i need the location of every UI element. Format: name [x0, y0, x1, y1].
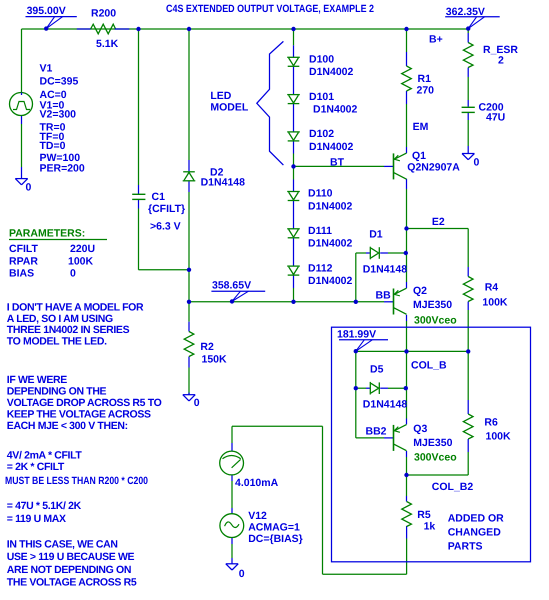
wire	[138, 29, 140, 194]
node E2	[432, 216, 445, 228]
label D2	[201, 167, 246, 189]
wire	[406, 179, 408, 229]
wire	[406, 91, 408, 153]
label D5	[363, 363, 408, 410]
label D100	[309, 54, 354, 79]
svg-text:COL_B2: COL_B2	[432, 481, 474, 493]
transistor Q1	[394, 153, 407, 179]
svg-text:362.35V: 362.35V	[446, 6, 485, 18]
value 2	[498, 55, 504, 67]
label 0	[26, 182, 32, 194]
node dot	[291, 300, 295, 304]
svg-text:D112: D112	[308, 262, 333, 274]
wire	[380, 252, 406, 254]
wire	[406, 526, 408, 539]
note math 2	[7, 500, 82, 525]
svg-text:ACMAG=1: ACMAG=1	[248, 522, 300, 534]
ground	[462, 154, 474, 160]
svg-text:47U: 47U	[486, 112, 505, 124]
svg-text:I DON'T HAVE A MODEL FOR: I DON'T HAVE A MODEL FOR	[7, 301, 144, 313]
V1 params	[40, 75, 85, 174]
svg-text:R5: R5	[417, 509, 431, 521]
svg-text:VOLTAGE DROP ACROSS R5 TO: VOLTAGE DROP ACROSS R5 TO	[7, 397, 162, 409]
label V12	[248, 510, 303, 545]
node EM	[413, 121, 429, 133]
label D1	[363, 228, 408, 275]
wire	[467, 351, 469, 414]
wire	[467, 302, 469, 352]
svg-text:TO MODEL THE LED.: TO MODEL THE LED.	[7, 336, 107, 348]
svg-text:5.1K: 5.1K	[96, 38, 119, 50]
svg-text:358.65V: 358.65V	[212, 280, 251, 292]
resistor R200	[77, 24, 130, 34]
node dot	[354, 300, 358, 304]
wire	[232, 425, 323, 427]
svg-text:D1N4148: D1N4148	[201, 176, 246, 188]
diode D101	[287, 95, 300, 104]
node dot	[404, 473, 408, 477]
svg-text:DEPENDING ON THE: DEPENDING ON THE	[7, 386, 107, 398]
svg-text:D1N4002: D1N4002	[309, 141, 354, 153]
box: added or changed parts	[332, 327, 531, 562]
node BB	[376, 289, 392, 301]
svg-text:C4S EXTENDED OUTPUT VOLTAGE, E: C4S EXTENDED OUTPUT VOLTAGE, EXAMPLE 2	[166, 3, 374, 15]
svg-text:IF WE WERE: IF WE WERE	[7, 374, 67, 386]
voltage source V1	[10, 93, 33, 116]
parameters heading	[9, 228, 107, 240]
wire	[467, 29, 469, 43]
diode D112	[287, 266, 300, 275]
voltage label 358.65V	[211, 280, 265, 304]
svg-text:ADDED OR: ADDED OR	[448, 513, 504, 525]
svg-text:R2: R2	[200, 341, 214, 353]
transistor Q2	[394, 288, 407, 314]
svg-text:V12: V12	[248, 510, 267, 522]
wire	[356, 252, 371, 254]
svg-text:Q2N2907A: Q2N2907A	[407, 162, 460, 174]
wire	[293, 29, 295, 45]
svg-text:C1: C1	[152, 191, 166, 203]
wire	[293, 104, 295, 132]
wire	[231, 537, 233, 563]
svg-text:0: 0	[26, 182, 32, 194]
wire	[21, 116, 23, 179]
note math 1	[5, 449, 148, 487]
node dot	[187, 300, 191, 304]
svg-text:CHANGED: CHANGED	[448, 527, 502, 539]
note paragraph 3	[7, 538, 137, 588]
wire	[188, 357, 190, 395]
transistor Q3	[394, 425, 407, 451]
svg-text:R6: R6	[484, 416, 498, 428]
svg-text:COL_B: COL_B	[411, 360, 447, 372]
wire	[406, 315, 408, 388]
svg-text:Q2: Q2	[413, 285, 427, 297]
svg-text:0: 0	[239, 568, 245, 580]
svg-text:D1: D1	[369, 228, 383, 240]
wire	[293, 238, 295, 266]
label 0	[239, 568, 245, 580]
wire	[293, 45, 295, 57]
wire	[22, 28, 469, 30]
svg-text:270: 270	[417, 85, 435, 97]
svg-text:D5: D5	[370, 363, 384, 375]
svg-text:MUST BE LESS THAN R200 * C200: MUST BE LESS THAN R200 * C200	[5, 475, 148, 487]
title	[166, 3, 374, 15]
svg-text:150K: 150K	[202, 354, 228, 366]
svg-text:D101: D101	[309, 91, 334, 103]
wire	[355, 253, 357, 302]
resistor R6	[463, 414, 473, 439]
resistor R4	[463, 277, 473, 302]
node COL_B2 wire	[407, 474, 469, 476]
svg-text:D102: D102	[309, 128, 334, 140]
svg-text:BB2: BB2	[366, 426, 387, 438]
diode D102	[287, 132, 300, 141]
svg-text:= 2K * CFILT: = 2K * CFILT	[7, 461, 65, 473]
node dot	[466, 349, 470, 353]
param CFILT	[9, 243, 95, 255]
node dot	[136, 27, 140, 31]
wire	[467, 439, 469, 475]
wire	[406, 539, 408, 575]
svg-text:MJE350: MJE350	[413, 299, 452, 311]
wire	[231, 426, 233, 451]
label 4.010mA	[235, 477, 279, 489]
svg-text:0: 0	[474, 157, 480, 169]
diode D100	[287, 57, 300, 66]
node dot	[187, 27, 191, 31]
value 47U	[486, 112, 505, 124]
node dot	[404, 27, 408, 31]
value 5.1K	[96, 38, 119, 50]
value Q2N2907A	[407, 162, 460, 174]
svg-text:PARTS: PARTS	[448, 541, 483, 553]
svg-text:D1N4148: D1N4148	[363, 399, 408, 411]
label C200	[479, 102, 504, 114]
voltage label 181.99V	[337, 328, 388, 353]
svg-text:B+: B+	[429, 34, 443, 46]
label D101	[309, 91, 358, 116]
svg-text:D111: D111	[308, 225, 332, 237]
node BT	[330, 157, 345, 169]
node BB wire	[189, 301, 394, 303]
label R2	[200, 341, 227, 366]
diode D2	[183, 172, 196, 181]
svg-text:0: 0	[70, 267, 76, 279]
svg-text:TD=0: TD=0	[40, 140, 66, 152]
label R1	[418, 73, 432, 85]
diode D110	[287, 192, 300, 201]
svg-text:V2=300: V2=300	[40, 109, 77, 121]
svg-text:395.00V: 395.00V	[27, 5, 66, 17]
node dot	[187, 268, 191, 272]
node dot	[354, 386, 358, 390]
label D111	[308, 225, 353, 250]
label Q1	[412, 150, 426, 162]
svg-text:E2: E2	[432, 216, 445, 228]
svg-text:DC=395: DC=395	[40, 75, 79, 87]
label 0	[474, 157, 480, 169]
label Q3	[413, 423, 456, 464]
label R4	[482, 281, 508, 308]
node E2 wire	[407, 228, 469, 230]
svg-text:R1: R1	[418, 73, 432, 85]
svg-text:220U: 220U	[70, 243, 95, 255]
node COL_B	[411, 360, 447, 372]
label D112	[308, 262, 353, 287]
svg-text:EM: EM	[413, 121, 429, 133]
wire	[323, 573, 407, 575]
node COL_B wire	[356, 350, 468, 352]
svg-text:ARE NOT DEPENDING ON: ARE NOT DEPENDING ON	[7, 564, 131, 576]
wire	[138, 200, 140, 270]
param BIAS	[9, 267, 76, 279]
node dot	[291, 164, 295, 168]
svg-text:= 47U * 5.1K/ 2K: = 47U * 5.1K/ 2K	[7, 500, 82, 512]
node B+	[429, 34, 443, 46]
diode D111	[287, 229, 300, 238]
svg-text:D1N4002: D1N4002	[308, 275, 353, 287]
svg-text:>6.3 V: >6.3 V	[150, 221, 181, 233]
svg-text:PARAMETERS:: PARAMETERS:	[9, 228, 85, 240]
ground	[15, 179, 27, 185]
label D102	[309, 128, 354, 153]
wire	[322, 426, 324, 574]
svg-text:BIAS: BIAS	[9, 267, 34, 279]
note added or changed parts	[448, 513, 504, 553]
svg-text:D1N4148: D1N4148	[363, 263, 408, 275]
svg-text:D1N4002: D1N4002	[308, 238, 353, 250]
svg-text:V1: V1	[40, 62, 53, 74]
label R6	[484, 416, 511, 442]
resistor R1	[402, 66, 412, 91]
voltage label 395.00V	[26, 5, 77, 31]
wire	[293, 275, 295, 301]
ground	[183, 395, 195, 401]
svg-text:A LED, SO I AM USING: A LED, SO I AM USING	[7, 313, 113, 325]
label Q2	[413, 285, 457, 326]
wire	[188, 181, 190, 302]
svg-text:1k: 1k	[424, 521, 436, 533]
svg-text:BT: BT	[330, 157, 345, 169]
node BB2 wire	[356, 437, 394, 439]
param RPAR	[9, 255, 94, 267]
svg-text:KEEP THE VOLTAGE ACROSS: KEEP THE VOLTAGE ACROSS	[7, 408, 151, 420]
svg-text:4.010mA: 4.010mA	[235, 477, 279, 489]
svg-text:= 119 U MAX: = 119 U MAX	[7, 513, 66, 525]
svg-text:DC={BIAS}: DC={BIAS}	[248, 533, 303, 545]
svg-text:THREE 1N4002 IN SERIES: THREE 1N4002 IN SERIES	[7, 324, 130, 336]
node dot	[404, 386, 408, 390]
wire	[231, 475, 233, 514]
wire	[356, 387, 371, 389]
svg-text:181.99V: 181.99V	[337, 328, 376, 340]
svg-text:D1N4002: D1N4002	[308, 200, 353, 212]
wire	[406, 475, 408, 502]
value 270	[417, 85, 435, 97]
svg-text:R4: R4	[485, 281, 499, 293]
svg-text:100K: 100K	[68, 255, 94, 267]
svg-text:THE VOLTAGE ACROSS R5: THE VOLTAGE ACROSS R5	[7, 577, 137, 589]
voltage source V12	[220, 514, 244, 538]
svg-text:EACH MJE < 300 V THEN:: EACH MJE < 300 V THEN:	[7, 420, 128, 432]
svg-text:{CFILT}: {CFILT}	[148, 203, 185, 215]
note paragraph 1	[7, 301, 144, 347]
svg-text:0: 0	[194, 397, 200, 409]
label R_ESR	[483, 44, 518, 56]
wire	[406, 253, 408, 288]
svg-text:Q3: Q3	[413, 423, 427, 435]
svg-text:100K: 100K	[486, 430, 512, 442]
resistor R_ESR	[463, 43, 473, 68]
label 0	[194, 397, 200, 409]
svg-text:CFILT: CFILT	[9, 243, 39, 255]
resistor R5	[402, 502, 412, 527]
resistor R2	[184, 332, 194, 357]
svg-text:RPAR: RPAR	[9, 255, 38, 267]
label D110	[308, 188, 353, 213]
svg-text:300Vceo: 300Vceo	[414, 315, 457, 327]
wire	[188, 302, 190, 332]
wire	[188, 393, 190, 395]
label R5	[417, 509, 435, 533]
LED MODEL brace	[257, 41, 284, 165]
node dot	[404, 349, 408, 353]
node dot	[291, 27, 295, 31]
wire	[467, 68, 469, 107]
svg-text:MJE350: MJE350	[413, 437, 452, 449]
diode D5	[370, 382, 379, 395]
svg-text:BB: BB	[376, 289, 392, 301]
svg-text:100K: 100K	[482, 296, 508, 308]
svg-text:4V/ 2mA * CFILT: 4V/ 2mA * CFILT	[7, 449, 83, 461]
svg-text:300Vceo: 300Vceo	[414, 452, 457, 464]
svg-text:2: 2	[498, 55, 504, 67]
diode D1	[370, 247, 379, 260]
wire	[188, 29, 190, 171]
svg-text:MODEL: MODEL	[210, 101, 249, 113]
wire	[355, 351, 357, 438]
node dot	[404, 251, 408, 255]
label LED MODEL	[210, 90, 249, 114]
capacitor C1	[132, 194, 145, 199]
voltage label 362.35V	[445, 6, 500, 31]
wire	[467, 229, 469, 277]
svg-text:D100: D100	[309, 54, 334, 66]
capacitor C200	[462, 107, 475, 112]
svg-text:D1N4002: D1N4002	[309, 66, 354, 78]
svg-text:PER=200: PER=200	[40, 162, 85, 174]
node COL_B2	[432, 481, 474, 493]
wire	[293, 141, 295, 191]
node BT wire	[294, 165, 394, 167]
current probe	[220, 451, 244, 475]
wire	[21, 29, 23, 93]
svg-text:LED: LED	[210, 90, 231, 102]
wire	[406, 229, 408, 254]
wire	[293, 201, 295, 229]
label V1	[40, 62, 53, 74]
wire	[406, 29, 408, 66]
node dot	[404, 226, 408, 230]
ground	[226, 564, 238, 570]
note paragraph 2	[7, 374, 162, 432]
wire	[406, 388, 408, 424]
svg-text:D1N4002: D1N4002	[313, 104, 358, 116]
svg-text:R200: R200	[91, 7, 116, 19]
label R200	[91, 7, 116, 19]
node BB2	[366, 426, 387, 438]
svg-text:USE > 119 U BECAUSE WE: USE > 119 U BECAUSE WE	[7, 551, 135, 563]
wire	[467, 113, 469, 154]
wire	[406, 451, 408, 475]
svg-text:IN THIS CASE, WE CAN: IN THIS CASE, WE CAN	[7, 538, 118, 550]
label C1	[148, 191, 185, 233]
wire	[380, 387, 406, 389]
svg-text:D110: D110	[308, 188, 333, 200]
wire	[139, 269, 190, 271]
wire	[293, 67, 295, 95]
svg-text:Q1: Q1	[412, 150, 426, 162]
